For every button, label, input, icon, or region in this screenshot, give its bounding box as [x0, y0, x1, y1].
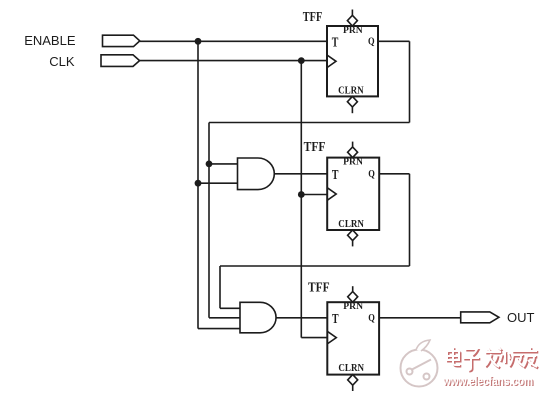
wire U1 feedback horizontal — [209, 122, 410, 124]
CLRN pin diamond U2 — [348, 230, 358, 246]
wire CLK vertical bus — [300, 61, 302, 338]
wire ENABLE branch to AND2 lower input — [198, 328, 240, 330]
watermark logo circle — [401, 340, 438, 387]
svg-text:CLRN: CLRN — [338, 86, 364, 97]
svg-text:CLRN: CLRN — [338, 363, 364, 374]
wire U2 feedback to AND2 upper input — [220, 307, 240, 309]
wire U2 Q output — [379, 173, 409, 175]
T flip-flop U2 — [327, 158, 379, 230]
svg-text:TFF: TFF — [304, 140, 326, 155]
AND gate A1 — [238, 158, 275, 190]
svg-text:Q: Q — [368, 37, 375, 48]
PRN pin diamond U1 — [347, 10, 357, 27]
wire U1 feedback branch to AND2 middle input — [209, 317, 240, 319]
svg-text:Q: Q — [368, 313, 375, 324]
junction dot ENABLE/U1 T — [195, 38, 202, 45]
input port ENABLE symbol — [103, 35, 140, 46]
svg-text:www.elecfans.com: www.elecfans.com — [442, 374, 533, 388]
wire U1 Q output — [378, 40, 410, 42]
svg-text:CLRN: CLRN — [338, 219, 364, 230]
PRN pin diamond U3 — [348, 286, 358, 302]
wire ENABLE horizontal to U1 T input — [140, 40, 327, 42]
svg-text:OUT: OUT — [507, 310, 535, 325]
svg-text:Q: Q — [368, 169, 375, 180]
svg-text:T: T — [332, 35, 339, 50]
wire CLK horizontal to U1 clock input — [140, 60, 327, 62]
wire U3 Q output to OUT port — [379, 317, 461, 319]
wire ENABLE vertical bus — [197, 41, 199, 328]
input port CLK symbol — [101, 55, 140, 67]
wire ENABLE branch to AND1 lower input — [198, 182, 238, 184]
output port OUT symbol — [461, 312, 499, 323]
wire U2 feedback left vertical — [219, 266, 221, 308]
junction dot Q1 feedback/AND1 upper — [206, 161, 213, 168]
wire AND2 output to U3 T input — [276, 317, 327, 319]
wire CLK branch to U3 clock input — [301, 337, 327, 339]
wire CLK branch to U2 clock input — [301, 194, 327, 196]
CLRN pin diamond U1 — [347, 96, 357, 113]
T flip-flop U1 — [327, 26, 378, 96]
wire U1 feedback left vertical — [208, 123, 210, 318]
PRN pin diamond U2 — [348, 142, 358, 158]
wire U2 feedback horizontal — [220, 265, 410, 267]
CLRN pin diamond U3 — [348, 375, 358, 391]
svg-text:T: T — [332, 312, 339, 327]
junction dot ENABLE/AND1 lower — [195, 180, 202, 187]
wire U1 feedback branch to AND1 upper input — [209, 163, 238, 165]
svg-text:T: T — [332, 168, 339, 183]
wire AND1 output to U2 T input — [275, 173, 328, 175]
T flip-flop U3 — [327, 302, 379, 374]
wire U2 feedback right vertical — [409, 174, 411, 266]
junction dot CLK/U1 clock — [298, 57, 305, 64]
svg-text:TFF: TFF — [303, 10, 323, 25]
AND gate A2 — [240, 302, 276, 333]
svg-text:TFF: TFF — [308, 280, 330, 295]
wire U1 feedback right vertical — [409, 41, 411, 122]
junction dot CLK/U2 clock — [298, 191, 305, 198]
svg-text:ENABLE: ENABLE — [24, 33, 76, 48]
svg-text:CLK: CLK — [49, 54, 75, 69]
